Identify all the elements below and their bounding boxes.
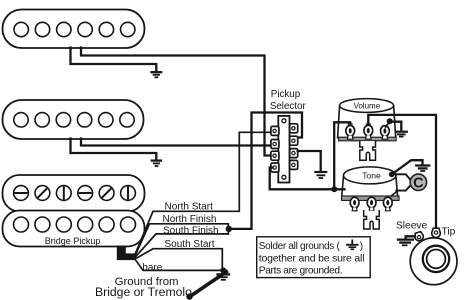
humbucker bottom coil (slug coil) [3,211,145,247]
wire: neck pickup ground lead [71,48,157,72]
svg-text:South Finish: South Finish [163,225,219,236]
svg-text:Bridge or Tremolo: Bridge or Tremolo [95,285,192,299]
solder dot at tremolo ground end [186,293,192,299]
wire: thick ground from bridge/tremolo (diagonal) [190,272,226,297]
wire: series link to switch (over the top) into right lug2 [229,113,302,229]
wire: south finish lead [135,234,228,258]
output jack outer ring [410,238,457,285]
switch right lug 1 [290,124,298,133]
switch left lug 2 [271,140,279,149]
tone lug 1 [350,197,359,211]
wire: north finish lead [135,224,228,256]
tone pot base plate [342,196,400,200]
note box [257,237,371,278]
capacitor C body [410,174,426,190]
junction dot: bare/south-start/bridge ground [220,267,226,273]
junction dot: output/volume/tone [331,186,337,192]
wire: tone lug3 to pot edge [391,192,397,197]
wire: north start lead (diagonal+label run) [135,132,273,254]
note inline ground glyph [347,240,358,249]
wire: switch output (left lug4) to volume/tone junction [270,168,345,190]
ground symbol (jack sleeve) [398,240,413,246]
middle pickup pole pieces [14,113,134,127]
output jack washer outer [423,246,449,272]
wire: tone cap top lead [393,174,412,180]
wire: volume lug3 to case dot [386,123,389,127]
wire: switch right lug3 to ground [298,151,321,171]
svg-text:Solder all grounds (: Solder all grounds ( [259,241,341,252]
switch left lug 1 [271,126,279,135]
svg-text:C: C [413,175,424,191]
wire: volume case to ground [390,122,402,131]
wire: volume middle lug up-over to jack tip [368,115,436,228]
wire: bare ground lead [135,260,222,271]
single-coil pickup (middle) body [3,100,144,139]
svg-text:South Start: South Start [165,239,215,250]
jack sleeve lug [415,232,423,241]
tone lug 2 [367,197,376,211]
tone pot top (can) [344,167,396,184]
svg-text:Tip: Tip [442,227,456,238]
tone pot body sides [342,176,398,196]
solder dot: volume case ground [387,118,393,124]
svg-text:Tone: Tone [362,171,381,181]
switch right lug 2 [290,136,298,145]
pickup selector switch body [278,116,289,183]
tone pot mounting bracket [364,211,380,229]
single-coil pickup (neck) body [3,10,145,49]
volume pot mounting bracket [360,141,376,160]
wire: south start lead [135,249,222,270]
ground symbol (middle pickup) [152,161,161,166]
jack tip lug [432,228,441,237]
volume lug 3 (ground) [381,126,390,140]
switch right lug 4 [290,160,298,169]
ground symbol (bridge ground junction) [218,270,230,279]
wire: sleeve to ground [406,236,415,239]
svg-text:Bridge Pickup: Bridge Pickup [45,236,101,246]
humbucker screw poles with slots [14,186,136,201]
humbucker cable bundle (thick black) [117,246,135,260]
svg-text:Sleeve: Sleeve [396,221,427,232]
svg-text:North Start: North Start [165,202,214,213]
switch mounting hole top [282,119,286,123]
ground symbol (tone) [416,166,429,172]
wire: neck pickup hot to switch lug3 left [81,48,273,156]
volume pot base plate [339,137,397,141]
neck pickup pole pieces [14,22,135,36]
volume lug 1 (input) [346,124,355,139]
switch right lug 3 [290,149,298,158]
svg-text:Parts are grounded.: Parts are grounded. [259,265,342,276]
wire: middle pickup ground lead [71,139,157,160]
wire: middle pickup hot to switch lug2 left [81,139,273,146]
ground symbol (neck pickup) [152,72,162,77]
volume pot top (can) [340,99,394,113]
ground symbol (switch) [315,172,326,178]
junction dot: series link (north finish + south finish) [226,226,232,232]
solder dot: tone case [389,172,395,178]
ground symbol (volume) [396,132,407,137]
tone lug 3 [383,197,392,211]
volume lug 2 (output, middle) [364,124,373,139]
switch mounting hole bottom [282,175,286,179]
humbucker slug poles [14,217,136,232]
svg-text:): ) [360,241,363,252]
svg-text:North Finish: North Finish [163,214,217,225]
svg-text:bare: bare [142,262,162,273]
switch left lug 3 [271,151,279,160]
humbucker top coil (screw coil) [3,175,145,212]
wire: tone case diagonal to ground [392,160,423,174]
svg-text:Pickup: Pickup [271,89,301,100]
output jack washer inner [427,250,446,269]
wire: tone cap bottom lead [396,185,411,191]
volume pot body sides [338,106,396,138]
svg-text:Volume: Volume [353,101,380,110]
switch left lug 4 [271,163,279,172]
wire: junction up to volume input lug [334,122,350,189]
svg-text:together and be sure all: together and be sure all [259,252,365,264]
svg-text:Selector: Selector [270,101,307,112]
